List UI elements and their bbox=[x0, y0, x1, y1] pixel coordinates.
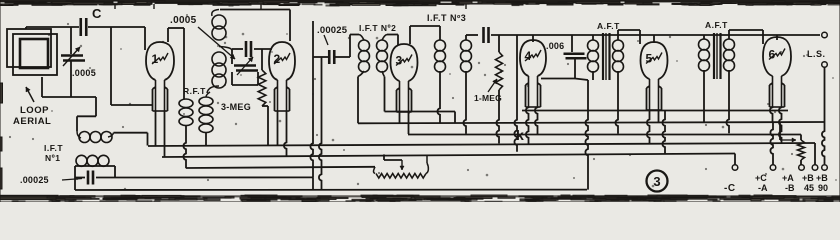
terminal -C bbox=[724, 154, 738, 195]
tube V4 legs bbox=[526, 107, 538, 144]
terminal +C -A bbox=[755, 122, 776, 193]
wire oscillator tank bbox=[232, 49, 258, 85]
wire AFT1 return to ground bbox=[585, 80, 588, 190]
bus wire A bbox=[148, 143, 815, 146]
svg-text:1: 1 bbox=[152, 52, 159, 66]
bus wire heater right bbox=[522, 110, 788, 112]
rheostat R2 bbox=[374, 155, 429, 178]
svg-text:-C: -C bbox=[724, 183, 736, 194]
transformer AFT2 core bbox=[714, 33, 721, 79]
wire plate bus top bbox=[517, 34, 820, 36]
transformer IFT3 secondary bbox=[461, 35, 472, 134]
svg-text:I.F.T Nº2: I.F.T Nº2 bbox=[359, 23, 396, 33]
bus wire ground bottom bbox=[75, 189, 587, 191]
tube V5 legs bbox=[647, 110, 659, 144]
wire oscillator top bbox=[220, 10, 290, 42]
label 1-MEG bbox=[474, 79, 502, 103]
label .0005 oscillator bbox=[170, 15, 235, 59]
svg-text:5: 5 bbox=[646, 52, 653, 66]
svg-text:2: 2 bbox=[274, 52, 281, 66]
svg-text:1-MEG: 1-MEG bbox=[474, 93, 502, 103]
transformer IFT2 primary bbox=[350, 35, 370, 124]
wire V5 cathode bbox=[662, 111, 665, 155]
svg-text:.006: .006 bbox=[546, 41, 564, 51]
wire to IFT1 bbox=[77, 97, 96, 131]
tube V2 legs bbox=[278, 111, 287, 156]
wire detector return bbox=[319, 57, 322, 190]
svg-text:LOOP: LOOP bbox=[20, 105, 49, 116]
loop aerial label bbox=[13, 87, 51, 127]
rheostat R3 arrow bbox=[780, 122, 796, 142]
transformer AFT1 core bbox=[603, 33, 610, 80]
wire V5 plate bbox=[653, 35, 655, 43]
svg-text:I.F.T Nº3: I.F.T Nº3 bbox=[427, 13, 466, 23]
loop aerial bbox=[7, 29, 57, 75]
tube V4 bbox=[520, 40, 546, 107]
svg-text:+B: +B bbox=[802, 173, 814, 183]
bus wire 1 bbox=[358, 122, 825, 123]
tube V3 bbox=[391, 44, 418, 112]
rheostat R3 bbox=[798, 135, 805, 165]
svg-text:+A: +A bbox=[782, 173, 794, 183]
svg-text:3: 3 bbox=[653, 174, 660, 189]
tube V1 legs bbox=[156, 111, 165, 157]
wire V4 grid return bbox=[514, 35, 517, 152]
resistor 1-MEG bbox=[496, 35, 503, 143]
transformer IFT1 primary bbox=[77, 131, 148, 146]
svg-text:A.F.T: A.F.T bbox=[597, 21, 620, 31]
svg-text:AERIAL: AERIAL bbox=[13, 116, 51, 127]
grid capacitor bbox=[232, 41, 272, 57]
svg-text:-A: -A bbox=[758, 183, 768, 193]
terminal +A -B bbox=[782, 165, 804, 193]
svg-text:.0005: .0005 bbox=[72, 68, 96, 78]
wire RFT grid link bbox=[206, 92, 210, 97]
terminal +B45 bbox=[802, 143, 818, 193]
edge smudge bbox=[0, 83, 3, 189]
transformer AFT2 label bbox=[705, 20, 728, 30]
transformer AFT2 primary bbox=[699, 35, 710, 123]
oscillator grid coil bbox=[207, 47, 232, 94]
svg-text:I.F.T: I.F.T bbox=[44, 143, 63, 153]
transformer IFT2 secondary bbox=[377, 35, 399, 112]
wire C to V1 grid bbox=[88, 27, 145, 50]
wire detector output vertical bbox=[310, 21, 313, 177]
transformer AFT1 label bbox=[597, 21, 620, 31]
terminal LS top bbox=[807, 32, 827, 59]
transformer AFT1 primary bbox=[588, 35, 599, 80]
tube V3 legs bbox=[400, 112, 409, 134]
rheostat R2 wiper bbox=[384, 154, 404, 170]
svg-text:6: 6 bbox=[769, 48, 776, 62]
transformer AFT2 secondary bbox=[724, 30, 764, 133]
svg-text:+C: +C bbox=[755, 173, 767, 183]
wire LS to +B90 bbox=[822, 68, 825, 165]
svg-text:45: 45 bbox=[804, 183, 814, 193]
bus wire 2 bbox=[408, 134, 801, 136]
transformer AFT1 secondary bbox=[613, 30, 641, 134]
torn paper edge bottom bbox=[0, 195, 840, 202]
label 3-MEG bbox=[221, 102, 251, 112]
transformer RFT primary bbox=[179, 99, 193, 168]
svg-text:.0005: .0005 bbox=[170, 15, 197, 26]
svg-text:R.F.T: R.F.T bbox=[183, 86, 206, 96]
capacitor IFT3 output bbox=[466, 27, 517, 43]
wire V3 plate bbox=[410, 26, 440, 44]
tube V5 bbox=[641, 42, 668, 110]
svg-text:-B: -B bbox=[785, 183, 795, 193]
transformer IFT1 secondary bbox=[75, 155, 115, 166]
svg-text:90: 90 bbox=[818, 183, 828, 193]
capacitor .006 bbox=[541, 35, 588, 80]
ink blot bbox=[516, 127, 524, 143]
svg-text:3-MEG: 3-MEG bbox=[221, 102, 251, 112]
wire tank bottom bbox=[42, 77, 96, 97]
capacitor .00025 IF bbox=[313, 25, 350, 64]
svg-text:4: 4 bbox=[525, 49, 532, 63]
wire V1 cathode return bbox=[111, 104, 152, 106]
bus wire grid return left bbox=[186, 167, 375, 168]
resistor 3-MEG bbox=[258, 49, 268, 146]
variable capacitor .0005 tuning bbox=[61, 47, 96, 78]
tube V2 bbox=[269, 42, 295, 111]
wire V1 plate to RFT bbox=[168, 28, 184, 99]
transformer IFT1 label bbox=[44, 143, 63, 163]
tube V6 bbox=[763, 37, 791, 107]
transformer RFT secondary bbox=[199, 97, 213, 146]
terminal +B90 bbox=[816, 165, 828, 193]
oscillator plate coil bbox=[212, 10, 226, 41]
svg-text:Nº1: Nº1 bbox=[45, 153, 60, 163]
svg-text:L.S.: L.S. bbox=[807, 49, 826, 59]
svg-text:+B: +B bbox=[816, 173, 828, 183]
capacitor .00025 aerial bbox=[20, 166, 313, 190]
wire tank left branch bbox=[70, 27, 72, 97]
transformer RFT label bbox=[183, 86, 206, 96]
capacitor C bbox=[81, 6, 102, 36]
transformer IFT3 label bbox=[427, 13, 466, 23]
figure number 3 bbox=[647, 171, 668, 192]
torn paper edge top bbox=[0, 0, 840, 9]
svg-text:A.F.T: A.F.T bbox=[705, 20, 728, 30]
svg-text:k: k bbox=[516, 127, 524, 143]
wire tank right branch bbox=[110, 27, 112, 105]
bus wire B bbox=[162, 154, 735, 158]
variable capacitor oscillator bbox=[234, 57, 258, 75]
tube V1 bbox=[146, 42, 174, 111]
wire V4 plate bbox=[532, 35, 534, 42]
tube V6 legs bbox=[770, 107, 782, 143]
svg-text:.00025: .00025 bbox=[317, 25, 348, 36]
transformer IFT3 primary bbox=[435, 40, 446, 123]
transformer IFT2 label bbox=[359, 23, 396, 33]
bus wire IF return bbox=[385, 112, 456, 123]
wire V6 plate bbox=[776, 35, 778, 40]
svg-text:3: 3 bbox=[396, 54, 403, 68]
wire antenna top bbox=[26, 27, 79, 29]
svg-text:C: C bbox=[92, 6, 102, 21]
terminal LS bottom bbox=[822, 62, 828, 68]
svg-text:.00025: .00025 bbox=[20, 175, 49, 185]
